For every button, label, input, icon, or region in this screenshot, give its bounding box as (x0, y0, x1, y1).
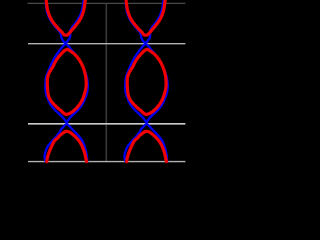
light gray bottom energy line (28, 161, 185, 163)
left panel blue band crossing curve A (45, 2, 88, 161)
left panel blue band crossing curve B (45, 0, 87, 161)
left panel red lower band arch (47, 131, 87, 161)
white line at lower crossing energy (28, 123, 185, 125)
right panel red lower band arch (127, 131, 167, 161)
left panel red middle band lens (47, 49, 86, 114)
right panel red middle band lens (127, 49, 166, 114)
left panel red upper band V (46, 0, 85, 35)
right panel red upper band V (126, 0, 165, 35)
vertical dark gray zone-boundary line (105, 3, 107, 161)
right panel blue band crossing curve A (125, 2, 168, 161)
light gray line at upper crossing energy (28, 43, 185, 45)
top dark gray energy line (28, 2, 186, 4)
right panel blue band crossing curve B (125, 0, 167, 161)
